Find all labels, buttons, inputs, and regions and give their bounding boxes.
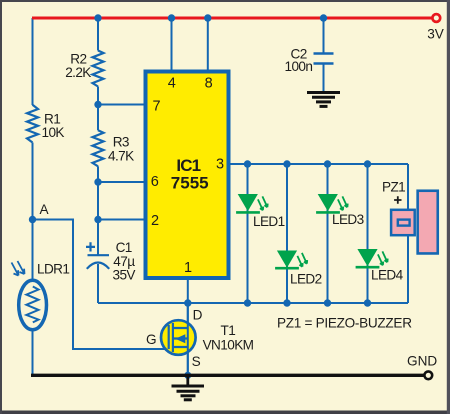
svg-text:1: 1 bbox=[184, 260, 192, 276]
svg-text:LED1: LED1 bbox=[253, 214, 285, 229]
svg-text:S: S bbox=[192, 354, 201, 369]
svg-text:10K: 10K bbox=[42, 125, 65, 140]
svg-text:T1: T1 bbox=[221, 323, 236, 338]
svg-text:3: 3 bbox=[216, 157, 224, 173]
svg-text:LDR1: LDR1 bbox=[37, 262, 69, 277]
svg-text:GND: GND bbox=[407, 354, 437, 369]
svg-text:PZ1: PZ1 bbox=[382, 180, 405, 195]
svg-text:PZ1 = PIEZO-BUZZER: PZ1 = PIEZO-BUZZER bbox=[277, 315, 412, 330]
svg-text:G: G bbox=[146, 332, 156, 347]
svg-text:3V: 3V bbox=[427, 26, 444, 41]
svg-text:LED2: LED2 bbox=[290, 272, 322, 287]
svg-text:6: 6 bbox=[151, 174, 159, 190]
svg-text:7555: 7555 bbox=[171, 173, 209, 192]
svg-text:7: 7 bbox=[152, 98, 160, 114]
svg-text:35V: 35V bbox=[113, 268, 136, 283]
svg-text:R3: R3 bbox=[113, 134, 129, 149]
svg-text:C1: C1 bbox=[116, 240, 132, 255]
svg-text:VN10KM: VN10KM bbox=[203, 337, 254, 352]
svg-text:D: D bbox=[193, 308, 203, 323]
svg-text:IC1: IC1 bbox=[176, 156, 200, 175]
svg-text:4.7K: 4.7K bbox=[108, 149, 134, 164]
svg-text:LED4: LED4 bbox=[371, 268, 404, 283]
svg-text:4: 4 bbox=[168, 76, 176, 92]
svg-text:8: 8 bbox=[205, 76, 213, 92]
svg-text:100n: 100n bbox=[285, 59, 313, 74]
svg-text:LED3: LED3 bbox=[332, 212, 364, 227]
svg-text:2.2K: 2.2K bbox=[65, 65, 91, 80]
svg-text:2: 2 bbox=[151, 213, 159, 229]
